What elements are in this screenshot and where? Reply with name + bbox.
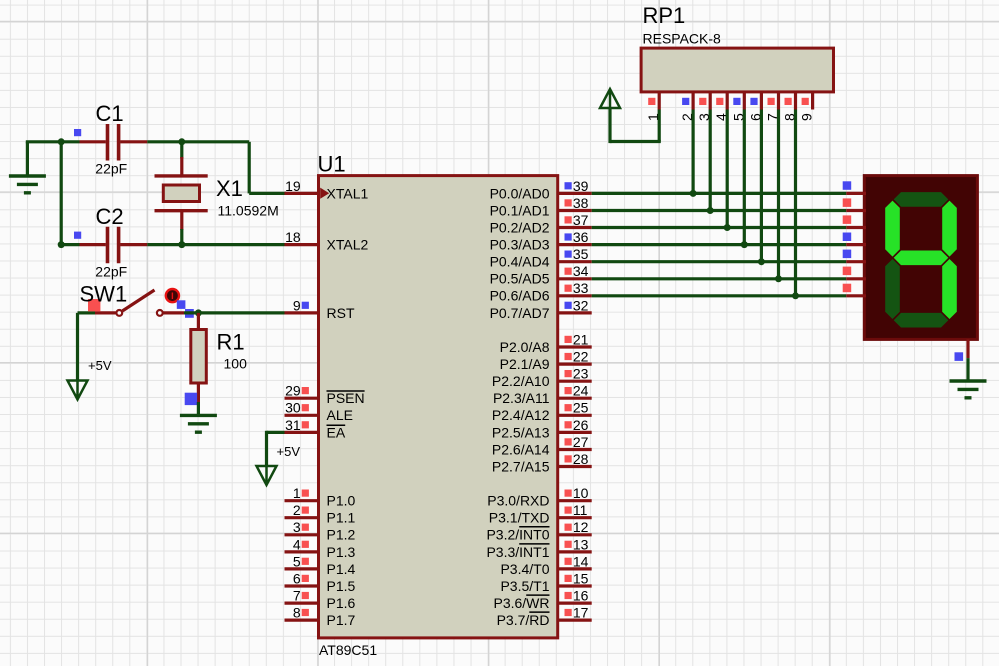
- svg-text:P3.6/WR: P3.6/WR: [493, 595, 549, 611]
- svg-text:11.0592M: 11.0592M: [218, 203, 279, 219]
- svg-text:18: 18: [285, 229, 301, 245]
- pin seg c (display): [843, 215, 866, 227]
- pin 29 PSEN (left): [285, 383, 365, 407]
- junction: [707, 207, 714, 214]
- svg-text:P0.7/AD7: P0.7/AD7: [490, 305, 550, 321]
- svg-text:P0.6/AD6: P0.6/AD6: [490, 288, 550, 304]
- svg-text:2: 2: [293, 502, 301, 518]
- pin 31 EA (left): [285, 417, 346, 441]
- wire: [60, 142, 63, 245]
- ground: [180, 402, 217, 432]
- power +5V (EA): [257, 444, 301, 485]
- pin 9 RST (left): [285, 297, 355, 321]
- pin 17 P3.7/RD (right): [497, 605, 592, 629]
- svg-text:P2.7/A15: P2.7/A15: [492, 458, 550, 474]
- svg-text:26: 26: [573, 417, 589, 433]
- junction: [58, 138, 65, 145]
- junction: [724, 224, 731, 231]
- pin 10 P3.0/RXD (right): [487, 485, 591, 509]
- junction: [178, 241, 185, 248]
- svg-text:16: 16: [573, 588, 589, 604]
- svg-text:P1.7: P1.7: [327, 612, 356, 628]
- svg-text:PSEN: PSEN: [327, 390, 365, 406]
- pin 6 (RP1): [747, 92, 763, 121]
- svg-text:P2.1/A9: P2.1/A9: [500, 356, 550, 372]
- svg-text:22pF: 22pF: [95, 161, 127, 177]
- pin 1 (RP1): [645, 92, 661, 121]
- svg-text:P2.2/A10: P2.2/A10: [492, 373, 550, 389]
- svg-text:1: 1: [293, 485, 301, 501]
- junction: [775, 275, 782, 282]
- pin 26 P2.5/A13 (right): [492, 417, 592, 441]
- svg-text:ALE: ALE: [327, 407, 353, 423]
- segment D (off): [894, 313, 949, 328]
- wire: [180, 229, 183, 245]
- crystal X1: [155, 142, 208, 230]
- value 22pF (C2): [95, 263, 127, 279]
- svg-text:25: 25: [573, 400, 589, 416]
- svg-text:P3.5/T1: P3.5/T1: [500, 578, 549, 594]
- value RESPACK-8 (RP1): [643, 31, 722, 47]
- svg-text:P1.1: P1.1: [327, 510, 356, 526]
- junction: [792, 292, 799, 299]
- svg-text:R1: R1: [217, 330, 245, 355]
- svg-text:P0.0/AD0: P0.0/AD0: [490, 185, 550, 201]
- pin seg g (display): [843, 284, 866, 296]
- svg-text:3: 3: [293, 519, 301, 535]
- svg-text:15: 15: [573, 570, 589, 586]
- junction: [741, 241, 748, 248]
- pin 11 P3.1/TXD (right): [489, 502, 592, 526]
- segment B (on): [942, 201, 957, 257]
- pin 4 P1.3 (left): [285, 536, 356, 560]
- svg-text:P0.3/AD3: P0.3/AD3: [490, 237, 550, 253]
- wire P0.6 to display: [592, 294, 847, 297]
- svg-text:35: 35: [573, 246, 589, 262]
- pin 7 (RP1): [765, 92, 781, 121]
- svg-text:31: 31: [285, 417, 301, 433]
- svg-text:100: 100: [224, 356, 248, 372]
- svg-text:29: 29: [285, 383, 301, 399]
- wire: [610, 108, 661, 143]
- power +5V: [68, 313, 112, 400]
- svg-text:P1.6: P1.6: [327, 595, 356, 611]
- svg-text:C2: C2: [96, 204, 124, 229]
- pin seg d (display): [843, 233, 866, 245]
- wire: [184, 311, 285, 314]
- pin 5 (RP1): [730, 92, 746, 121]
- wire P0.1 to display: [592, 209, 847, 212]
- label C1: [96, 101, 124, 126]
- svg-text:9: 9: [293, 297, 301, 313]
- pin seg f (display): [843, 267, 866, 279]
- svg-text:22: 22: [573, 349, 589, 365]
- svg-text:32: 32: [573, 297, 589, 313]
- svg-text:19: 19: [285, 178, 301, 194]
- pin 8 (RP1): [782, 92, 798, 121]
- svg-text:P3.1/TXD: P3.1/TXD: [489, 510, 550, 526]
- svg-text:XTAL1: XTAL1: [327, 185, 369, 201]
- svg-text:30: 30: [285, 400, 301, 416]
- svg-text:9: 9: [799, 113, 815, 121]
- wire: [147, 243, 284, 246]
- pin 19 XTAL1 (left): [285, 178, 369, 202]
- wire P0.0 to display: [592, 192, 847, 195]
- svg-text:U1: U1: [318, 152, 346, 177]
- svg-text:P2.5/A13: P2.5/A13: [492, 424, 550, 440]
- pin 37 P0.2/AD2 (right): [490, 212, 592, 236]
- junction: [58, 241, 65, 248]
- pin 2 (RP1): [679, 92, 695, 121]
- pin 7 P1.6 (left): [285, 588, 356, 612]
- svg-text:C1: C1: [96, 101, 124, 126]
- pin 3 P1.2 (left): [285, 519, 356, 543]
- svg-text:P3.0/RXD: P3.0/RXD: [487, 493, 549, 509]
- svg-text:P3.7/RD: P3.7/RD: [497, 612, 550, 628]
- pin 38 P0.1/AD1 (right): [490, 195, 592, 219]
- svg-text:P2.4/A12: P2.4/A12: [492, 407, 550, 423]
- svg-text:P1.2: P1.2: [327, 527, 356, 543]
- pin 6 P1.5 (left): [285, 570, 356, 594]
- value 100 (R1): [224, 356, 248, 372]
- pin 3 (RP1): [696, 92, 712, 121]
- svg-text:28: 28: [573, 451, 589, 467]
- pin seg e (display): [843, 250, 866, 262]
- wire P0.5 to display: [592, 277, 847, 280]
- svg-text:P0.5/AD5: P0.5/AD5: [490, 271, 550, 287]
- ground: [9, 142, 46, 193]
- pin 27 P2.6/A14 (right): [492, 434, 592, 458]
- label C2: [96, 204, 124, 229]
- pin 32 P0.7/AD7 (right): [490, 297, 592, 321]
- pin 23 P2.2/A10 (right): [492, 366, 592, 390]
- wire P0.2 to display: [592, 226, 847, 229]
- wire: [147, 140, 249, 143]
- svg-text:P1.4: P1.4: [327, 561, 356, 577]
- svg-text:P0.1/AD1: P0.1/AD1: [490, 202, 550, 218]
- switch toggle button: [166, 289, 179, 302]
- pin 28 P2.7/A15 (right): [492, 451, 592, 475]
- value 11.0592M (X1): [218, 203, 279, 219]
- svg-text:17: 17: [573, 605, 589, 621]
- junction: [690, 190, 697, 197]
- svg-text:EA: EA: [327, 424, 346, 440]
- svg-text:P3.3/INT1: P3.3/INT1: [486, 544, 549, 560]
- pin 21 P2.0/A8 (right): [500, 331, 592, 355]
- pin 8 P1.7 (left): [285, 605, 356, 629]
- ground: [950, 358, 987, 398]
- capacitor C1: [61, 124, 147, 161]
- svg-text:4: 4: [293, 536, 301, 552]
- svg-text:33: 33: [573, 280, 589, 296]
- wire RP1 pin 6 down: [760, 110, 763, 262]
- svg-text:P3.2/INT0: P3.2/INT0: [486, 527, 549, 543]
- svg-text:14: 14: [573, 553, 589, 569]
- svg-text:AT89C51: AT89C51: [319, 642, 377, 658]
- switch SW1: [78, 290, 185, 316]
- svg-text:P1.5: P1.5: [327, 578, 356, 594]
- svg-text:12: 12: [573, 519, 589, 535]
- svg-text:36: 36: [573, 229, 589, 245]
- wire RP1 pin 4 down: [726, 110, 729, 228]
- resistor R1: [191, 313, 207, 402]
- resistor pack RP1 body: [641, 48, 833, 92]
- svg-text:5: 5: [293, 553, 301, 569]
- svg-text:13: 13: [573, 536, 589, 552]
- pin 13 P3.3/INT1 (right): [486, 536, 591, 560]
- pin 1 P1.0 (left): [285, 485, 356, 509]
- pin 34 P0.5/AD5 (right): [490, 263, 592, 287]
- svg-text:+5V: +5V: [88, 358, 112, 373]
- svg-text:21: 21: [573, 331, 589, 347]
- pin 2 P1.1 (left): [285, 502, 356, 526]
- svg-text:39: 39: [573, 178, 589, 194]
- pin 18 XTAL2 (left): [285, 229, 369, 253]
- svg-text:27: 27: [573, 434, 589, 450]
- wire RP1 pin 2 down: [691, 110, 694, 194]
- svg-text:6: 6: [293, 570, 301, 586]
- label R1: [217, 330, 245, 355]
- svg-text:P0.4/AD4: P0.4/AD4: [490, 254, 550, 270]
- segment F (on): [885, 201, 900, 257]
- value AT89C51 (U1): [319, 642, 377, 658]
- svg-text:38: 38: [573, 195, 589, 211]
- wire RP1 pin 3 down: [709, 110, 712, 211]
- wire RP1 pin 7 down: [777, 110, 780, 279]
- segment C (on): [942, 259, 957, 319]
- capacitor C2: [61, 227, 147, 263]
- svg-text:7: 7: [293, 588, 301, 604]
- pin 30 ALE (left): [285, 400, 353, 424]
- wire: [267, 431, 285, 466]
- pin 35 P0.4/AD4 (right): [490, 246, 592, 270]
- svg-text:10: 10: [573, 485, 589, 501]
- pin 9 (RP1): [799, 92, 815, 121]
- junction: [178, 138, 185, 145]
- wire: [26, 140, 61, 143]
- svg-text:X1: X1: [216, 176, 243, 201]
- segment E (off): [885, 259, 900, 319]
- svg-text:RST: RST: [327, 305, 355, 321]
- segment G (on): [894, 251, 949, 266]
- pin 12 P3.2/INT0 (right): [486, 519, 591, 543]
- wire: [249, 142, 286, 194]
- svg-text:22pF: 22pF: [95, 263, 127, 279]
- svg-text:P2.3/A11: P2.3/A11: [493, 390, 550, 406]
- svg-text:SW1: SW1: [80, 282, 128, 307]
- svg-text:P1.3: P1.3: [327, 544, 356, 560]
- pin common cathode: [955, 339, 969, 361]
- pin 15 P3.5/T1 (right): [500, 570, 591, 594]
- pin seg a (display): [843, 181, 866, 193]
- svg-text:P1.0: P1.0: [327, 493, 356, 509]
- svg-text:34: 34: [573, 263, 589, 279]
- svg-text:P0.2/AD2: P0.2/AD2: [490, 219, 550, 235]
- svg-text:8: 8: [293, 605, 301, 621]
- svg-text:P2.6/A14: P2.6/A14: [492, 441, 550, 457]
- wire P0.4 to display: [592, 260, 847, 263]
- svg-text:RESPACK-8: RESPACK-8: [643, 31, 722, 47]
- pin 22 P2.1/A9 (right): [500, 349, 592, 373]
- node square: [185, 393, 197, 405]
- svg-text:+5V: +5V: [277, 444, 301, 459]
- node squares: [177, 300, 194, 318]
- junction: [758, 258, 765, 265]
- power +5V (up arrow): [600, 89, 620, 108]
- pin 16 P3.6/WR (right): [493, 588, 591, 612]
- pin 36 P0.3/AD3 (right): [490, 229, 592, 253]
- 7-segment display body: [864, 176, 977, 340]
- svg-text:XTAL2: XTAL2: [327, 237, 369, 253]
- pin 5 P1.4 (left): [285, 553, 356, 577]
- pin 33 P0.6/AD6 (right): [490, 280, 592, 304]
- svg-text:P2.0/A8: P2.0/A8: [500, 339, 550, 355]
- svg-text:RP1: RP1: [643, 3, 686, 28]
- pin 14 P3.4/T0 (right): [500, 553, 591, 577]
- pin 24 P2.3/A11 (right): [493, 383, 592, 407]
- wire RP1 pin 8 down: [794, 110, 797, 296]
- segment A (off): [894, 192, 949, 207]
- svg-text:37: 37: [573, 212, 589, 228]
- pin seg b (display): [843, 198, 866, 210]
- label X1: [216, 176, 243, 201]
- wire RP1 pin 5 down: [743, 110, 746, 245]
- svg-text:24: 24: [573, 383, 589, 399]
- junction: [195, 309, 202, 316]
- label RP1: [643, 3, 686, 28]
- value 22pF (C1): [95, 161, 127, 177]
- svg-text:11: 11: [573, 502, 588, 518]
- microcontroller U1 body: [319, 176, 558, 638]
- pin 39 P0.0/AD0 (right): [490, 178, 592, 202]
- svg-text:23: 23: [573, 366, 589, 382]
- svg-text:P3.4/T0: P3.4/T0: [500, 561, 549, 577]
- label U1: [318, 152, 346, 177]
- pin 4 (RP1): [713, 92, 729, 121]
- wire P0.3 to display: [592, 243, 847, 246]
- pin 25 P2.4/A12 (right): [492, 400, 592, 424]
- label SW1: [80, 282, 128, 307]
